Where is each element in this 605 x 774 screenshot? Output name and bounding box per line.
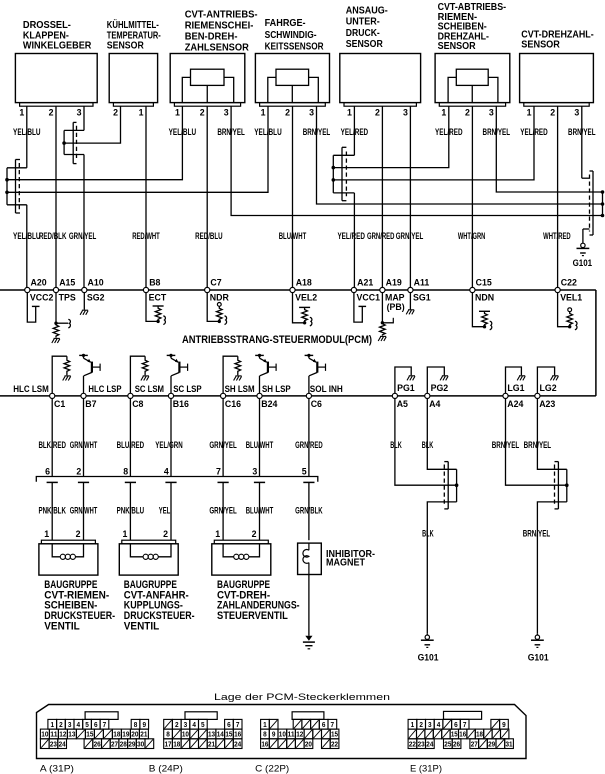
wire box1 pin2 to terminal A15 (RED/BLK) bbox=[55, 106, 57, 287]
wire from connector to valve (x=308.9) bbox=[308, 482, 310, 540]
svg-text:A5: A5 bbox=[397, 399, 408, 409]
svg-text:2: 2 bbox=[175, 720, 179, 729]
internal driver transistor at C6 (SOL INH) bbox=[305, 354, 314, 356]
valve CVT-RIEMENSCHEIBEN-DRUCKSTEUERVENTIL solenoid coil bbox=[52, 544, 60, 557]
svg-text:RIEMENSCHEI-: RIEMENSCHEI- bbox=[185, 21, 254, 32]
wire shield to terminal A20 bbox=[7, 204, 27, 206]
svg-text:B16: B16 bbox=[173, 399, 189, 409]
splice junction dot bbox=[455, 483, 459, 487]
svg-text:6: 6 bbox=[45, 467, 50, 477]
wire box5 pin1 into shield3 bbox=[353, 106, 355, 155]
svg-text:B8: B8 bbox=[149, 278, 160, 288]
internal NDR input: pull-up resistor with test point bbox=[207, 293, 219, 322]
splice top wire bbox=[427, 399, 456, 470]
connector A tab bbox=[85, 712, 118, 720]
svg-text:RED/BLU: RED/BLU bbox=[195, 231, 223, 241]
svg-text:7: 7 bbox=[103, 720, 107, 729]
connector C (22P) grid bbox=[261, 719, 270, 729]
svg-text:16: 16 bbox=[459, 730, 466, 739]
svg-text:5: 5 bbox=[85, 720, 89, 729]
svg-text:SENSOR: SENSOR bbox=[346, 39, 384, 50]
svg-text:1: 1 bbox=[19, 108, 24, 118]
svg-text:24: 24 bbox=[234, 739, 242, 748]
svg-text:A10: A10 bbox=[88, 278, 104, 288]
svg-text:VEL1: VEL1 bbox=[560, 292, 582, 302]
splice: cable symbol bbox=[557, 462, 559, 509]
svg-text:7: 7 bbox=[331, 720, 335, 729]
connector A (31P) grid bbox=[48, 719, 57, 729]
svg-text:GRN/BLK: GRN/BLK bbox=[295, 506, 323, 516]
wire shield3 to terminal A21 bbox=[333, 192, 354, 194]
wire to inline connector pin (x=171) bbox=[170, 399, 172, 477]
svg-text:ANTRIEBSSTRANG-STEUERMODUL(PCM: ANTRIEBSSTRANG-STEUERMODUL(PCM) bbox=[182, 334, 372, 346]
svg-text:1: 1 bbox=[215, 529, 220, 539]
svg-text:1: 1 bbox=[263, 720, 267, 729]
svg-text:RED/BLK: RED/BLK bbox=[39, 231, 67, 241]
svg-text:GRN/YEL: GRN/YEL bbox=[69, 231, 97, 241]
svg-text:9: 9 bbox=[142, 720, 146, 729]
svg-text:CVT-ANTRIEBS-: CVT-ANTRIEBS- bbox=[185, 9, 258, 20]
wire to inline connector pin (x=130.4) bbox=[129, 399, 131, 477]
svg-text:ECT: ECT bbox=[149, 292, 167, 302]
wire to inline connector pin (x=223.1) bbox=[222, 399, 224, 477]
sensor CVT-ABTRIEBSRIEMENSCHEIBEN-DREHZAHLSENSOR (driven pulley speed sensor) pin strip bbox=[439, 103, 505, 107]
svg-text:3: 3 bbox=[309, 108, 314, 118]
svg-text:VENTIL: VENTIL bbox=[44, 621, 80, 633]
svg-text:RED/WHT: RED/WHT bbox=[132, 231, 160, 241]
valve CVT-DREHZAHLAENDERUNGS-STEUERVENTIL solenoid coil bbox=[223, 544, 234, 557]
svg-text:18: 18 bbox=[173, 739, 180, 748]
sensor DROSSELKLAPPENWINKELGEBER (throttle angle sensor) box bbox=[15, 54, 97, 103]
wire box6 pin2 to terminal C15 (WHT/GRN) bbox=[471, 106, 473, 287]
svg-text:WHT/RED: WHT/RED bbox=[543, 231, 571, 241]
svg-text:29: 29 bbox=[488, 739, 495, 748]
svg-text:6: 6 bbox=[94, 720, 98, 729]
svg-text:C22: C22 bbox=[561, 278, 577, 288]
inline connector body bbox=[36, 477, 318, 482]
svg-text:16: 16 bbox=[261, 739, 268, 748]
shielded cable symbol (VCC2 wires) bbox=[15, 160, 17, 214]
internal SG1 ground bbox=[409, 293, 411, 310]
svg-text:PNK/BLU: PNK/BLU bbox=[117, 506, 144, 516]
svg-text:G101: G101 bbox=[528, 653, 549, 663]
svg-text:C7: C7 bbox=[210, 278, 221, 288]
svg-text:2: 2 bbox=[163, 529, 168, 539]
svg-text:3: 3 bbox=[252, 467, 257, 477]
sensor CVT-DREHZAHLSENSOR (CVT speed sensor) box bbox=[520, 54, 594, 103]
svg-text:7: 7 bbox=[216, 467, 221, 477]
svg-text:SH LSM: SH LSM bbox=[225, 384, 255, 394]
wire shield3 to box6 pin1 (YEL/RED) bbox=[333, 106, 449, 167]
svg-text:BLK: BLK bbox=[390, 440, 402, 450]
sensor DROSSELKLAPPENWINKELGEBER (throttle angle sensor) pin strip bbox=[20, 103, 93, 107]
wire shield4 to ground G101 bbox=[583, 228, 590, 230]
svg-text:4: 4 bbox=[164, 467, 169, 477]
svg-text:2: 2 bbox=[252, 529, 257, 539]
svg-text:GRN/YEL: GRN/YEL bbox=[209, 506, 237, 516]
shielded cable symbol (VCC1 wires) bbox=[341, 147, 343, 200]
svg-text:A4: A4 bbox=[429, 399, 440, 409]
svg-text:C (22P): C (22P) bbox=[255, 764, 289, 774]
svg-text:VCC1: VCC1 bbox=[357, 292, 381, 302]
svg-text:18: 18 bbox=[476, 730, 483, 739]
svg-text:7: 7 bbox=[236, 720, 240, 729]
wire box4 pin2 to terminal A18 (BLU/WHT) bbox=[292, 106, 294, 287]
svg-text:ZAHLSENSOR: ZAHLSENSOR bbox=[185, 43, 250, 54]
svg-text:3: 3 bbox=[574, 108, 579, 118]
svg-text:A20: A20 bbox=[31, 278, 47, 288]
svg-text:VCC2: VCC2 bbox=[30, 292, 54, 302]
wire to inline connector pin (x=83.5) bbox=[83, 399, 85, 477]
sensor FAHRGESCHWINDIGKEITSSENSOR (vehicle speed sensor) pickup coil bbox=[276, 69, 309, 85]
svg-text:3: 3 bbox=[68, 720, 72, 729]
wire shield2 to box2 pin2 bbox=[64, 106, 120, 143]
internal supply tap at VCC2 bbox=[27, 293, 35, 323]
internal driver transistor at B24 bbox=[255, 354, 264, 356]
splice exit wire to ground bbox=[537, 502, 566, 634]
svg-text:8: 8 bbox=[134, 720, 138, 729]
svg-text:SG1: SG1 bbox=[413, 292, 431, 302]
svg-text:C16: C16 bbox=[225, 399, 241, 409]
sensor CVT-ANTRIEBSRIEMENSCHEIBEN-DREHZAHLSENSOR (drive pulley speed sensor) pickup coil bbox=[191, 69, 225, 85]
wire box1 pin3 into shield2 bbox=[83, 106, 85, 130]
svg-text:8: 8 bbox=[123, 467, 128, 477]
svg-text:3: 3 bbox=[428, 720, 432, 729]
svg-text:2: 2 bbox=[76, 529, 81, 539]
svg-text:DRUCK-: DRUCK- bbox=[346, 28, 380, 39]
svg-text:9: 9 bbox=[502, 720, 506, 729]
PCM right border bbox=[595, 290, 597, 396]
svg-text:2: 2 bbox=[465, 108, 470, 118]
svg-text:8: 8 bbox=[263, 730, 267, 739]
svg-text:MAGNET: MAGNET bbox=[326, 558, 365, 569]
svg-text:19: 19 bbox=[122, 730, 129, 739]
svg-text:VEL2: VEL2 bbox=[295, 292, 317, 302]
svg-text:NDN: NDN bbox=[475, 292, 494, 302]
svg-text:BEN-DREH-: BEN-DREH- bbox=[185, 32, 238, 43]
connector B (24P) grid bbox=[164, 719, 173, 729]
svg-text:2: 2 bbox=[200, 108, 205, 118]
svg-text:STEUERVENTIL: STEUERVENTIL bbox=[217, 610, 288, 622]
svg-text:A (31P): A (31P) bbox=[40, 764, 74, 774]
ground G101 right bbox=[536, 634, 538, 635]
junction dots shield4 bbox=[601, 190, 605, 194]
wire box5 pin3 to terminal A11 (GRN/YEL) bbox=[409, 106, 411, 287]
wire box5 pin2 to terminal A19 (GRN/RED) bbox=[381, 106, 383, 287]
svg-text:B24: B24 bbox=[261, 399, 277, 409]
splice exit wire to ground bbox=[427, 502, 456, 634]
svg-text:2: 2 bbox=[113, 108, 118, 118]
svg-text:24: 24 bbox=[426, 739, 434, 748]
svg-text:9: 9 bbox=[272, 730, 276, 739]
valve CVT-RIEMENSCHEIBEN-DRUCKSTEUERVENTIL pin strip bbox=[41, 540, 95, 544]
svg-text:1: 1 bbox=[44, 529, 49, 539]
svg-text:15: 15 bbox=[451, 730, 458, 739]
svg-text:23: 23 bbox=[418, 739, 425, 748]
svg-text:3: 3 bbox=[184, 720, 188, 729]
svg-text:18: 18 bbox=[113, 730, 120, 739]
svg-text:BRN/YEL: BRN/YEL bbox=[523, 529, 551, 539]
wire from connector to valve (x=223.1) bbox=[222, 482, 224, 540]
svg-text:YEL/GRN: YEL/GRN bbox=[155, 440, 183, 450]
svg-text:5: 5 bbox=[302, 467, 307, 477]
wire shield3 to box7 pin1 (YEL/RED) bbox=[333, 106, 534, 180]
connector B tab bbox=[185, 712, 217, 720]
svg-text:26: 26 bbox=[453, 739, 460, 748]
svg-text:C15: C15 bbox=[476, 278, 492, 288]
internal driver transistor at B7 bbox=[79, 354, 88, 356]
internal supply tap at VCC1 bbox=[354, 293, 362, 323]
svg-text:13: 13 bbox=[68, 730, 75, 739]
wire shield1 to box4 pin1 (YEL/BLU) bbox=[7, 106, 268, 192]
svg-text:3: 3 bbox=[77, 108, 82, 118]
internal TPS input: resistor to ground with wiper hook bbox=[55, 293, 57, 324]
valve CVT-RIEMENSCHEIBEN-DRUCKSTEUERVENTIL box bbox=[39, 544, 98, 575]
svg-text:BLK: BLK bbox=[422, 529, 434, 539]
svg-text:E (31P): E (31P) bbox=[410, 764, 442, 774]
svg-text:1: 1 bbox=[411, 720, 415, 729]
internal VEL1 input: pull-up resistor with test point bbox=[558, 293, 570, 327]
connector C tab bbox=[292, 712, 324, 720]
wire to inline connector pin (x=259.5) bbox=[259, 399, 261, 477]
svg-text:SENSOR: SENSOR bbox=[438, 41, 477, 52]
connector E tab bbox=[444, 711, 482, 719]
svg-text:SG2: SG2 bbox=[87, 292, 105, 302]
sensor CVT-ANTRIEBSRIEMENSCHEIBEN-DREHZAHLSENSOR (drive pulley speed sensor) box bbox=[170, 54, 245, 103]
svg-text:5: 5 bbox=[201, 720, 205, 729]
wire inhibitor magnet to chassis ground bbox=[308, 575, 310, 636]
svg-text:2: 2 bbox=[375, 108, 380, 118]
svg-text:NDR: NDR bbox=[210, 292, 230, 302]
internal VEL2 input: pull-up resistor bbox=[293, 293, 305, 323]
svg-text:30: 30 bbox=[137, 739, 144, 748]
svg-text:21: 21 bbox=[140, 730, 147, 739]
svg-text:1: 1 bbox=[261, 108, 266, 118]
svg-text:G101: G101 bbox=[418, 653, 439, 663]
svg-text:UNTER-: UNTER- bbox=[346, 17, 380, 28]
svg-text:22: 22 bbox=[331, 739, 338, 748]
svg-text:27: 27 bbox=[471, 739, 478, 748]
svg-text:6: 6 bbox=[454, 720, 458, 729]
svg-text:SC LSP: SC LSP bbox=[173, 384, 202, 394]
sensor CVT-ABTRIEBSRIEMENSCHEIBEN-DREHZAHLSENSOR (driven pulley speed sensor) pickup coil bbox=[456, 69, 488, 85]
svg-text:PG2: PG2 bbox=[431, 383, 449, 393]
svg-text:23: 23 bbox=[50, 739, 57, 748]
svg-text:SENSOR: SENSOR bbox=[521, 40, 560, 51]
svg-text:C6: C6 bbox=[311, 399, 322, 409]
svg-text:8: 8 bbox=[166, 730, 170, 739]
svg-text:BLU/WHT: BLU/WHT bbox=[279, 231, 307, 241]
svg-text:2: 2 bbox=[49, 108, 54, 118]
valve CVT-ANFAHRKUPPLUNGS-DRUCKSTEUERVENTIL box bbox=[119, 544, 178, 575]
svg-text:Lage der PCM-Steckerklemmen: Lage der PCM-Steckerklemmen bbox=[214, 692, 390, 703]
svg-text:GRN/YEL: GRN/YEL bbox=[396, 231, 424, 241]
wire pin1 box1 to shield bbox=[26, 106, 28, 168]
svg-text:11: 11 bbox=[288, 730, 295, 739]
svg-text:6: 6 bbox=[322, 720, 326, 729]
svg-text:15: 15 bbox=[86, 730, 93, 739]
wire from connector to valve (x=130.4) bbox=[129, 482, 131, 540]
sensor KUEHLMITTELTEMPERATURSENSOR (coolant temp sensor) box bbox=[109, 54, 157, 103]
svg-text:1: 1 bbox=[175, 108, 180, 118]
svg-text:10: 10 bbox=[41, 730, 48, 739]
svg-text:3: 3 bbox=[403, 108, 408, 118]
internal low-side sense resistor at C16 bbox=[223, 356, 238, 393]
shielded cable symbol (shield drains, right) bbox=[592, 171, 594, 235]
svg-text:14: 14 bbox=[217, 730, 225, 739]
svg-text:15: 15 bbox=[225, 730, 232, 739]
sensor ANSAUG-UNTERDRUCKSENSOR (manifold absolute pressure sensor) box bbox=[340, 54, 421, 103]
svg-text:LG1: LG1 bbox=[507, 383, 524, 393]
internal logic ground LG2 bbox=[537, 367, 554, 393]
svg-text:HLC LSP: HLC LSP bbox=[88, 384, 121, 394]
svg-text:22: 22 bbox=[409, 739, 416, 748]
splice middle wire bbox=[506, 399, 567, 486]
splice junction dot bbox=[565, 483, 569, 487]
wire box2 pin1 to terminal B8 (RED/WHT) bbox=[145, 106, 147, 287]
valve CVT-DREHZAHLAENDERUNGS-STEUERVENTIL pin strip bbox=[214, 540, 268, 544]
sensor CVT-ABTRIEBSRIEMENSCHEIBEN-DREHZAHLSENSOR (driven pulley speed sensor) box bbox=[435, 54, 510, 103]
svg-text:1: 1 bbox=[527, 108, 532, 118]
svg-text:16: 16 bbox=[234, 730, 241, 739]
svg-text:10: 10 bbox=[279, 730, 286, 739]
svg-text:HLC LSM: HLC LSM bbox=[13, 384, 49, 394]
internal SG2 ground bbox=[83, 293, 85, 310]
internal power ground PG1 bbox=[395, 367, 411, 393]
svg-text:A23: A23 bbox=[539, 399, 555, 409]
valve CVT-DREHZAHLAENDERUNGS-STEUERVENTIL box bbox=[212, 544, 271, 575]
svg-text:B7: B7 bbox=[85, 399, 96, 409]
ground G101 at shield4 bbox=[582, 242, 584, 243]
splice: cable symbol bbox=[447, 462, 449, 509]
svg-text:10: 10 bbox=[182, 730, 189, 739]
internal MAP input: resistor to ground bbox=[381, 293, 383, 323]
svg-text:MAP: MAP bbox=[385, 292, 405, 302]
svg-text:GRN/WHT: GRN/WHT bbox=[70, 506, 98, 516]
svg-text:1: 1 bbox=[441, 108, 446, 118]
valve CVT-ANFAHRKUPPLUNGS-DRUCKSTEUERVENTIL pin strip bbox=[122, 540, 176, 544]
svg-text:B (24P): B (24P) bbox=[149, 764, 183, 774]
svg-text:3: 3 bbox=[489, 108, 494, 118]
sensor FAHRGESCHWINDIGKEITSSENSOR (vehicle speed sensor) pin strip bbox=[260, 103, 326, 107]
junction dots on shield1 bracket bbox=[5, 178, 9, 182]
wire to inline connector pin (x=52.2) bbox=[51, 399, 53, 477]
sensor FAHRGESCHWINDIGKEITSSENSOR (vehicle speed sensor) box bbox=[255, 54, 329, 103]
svg-text:26: 26 bbox=[94, 739, 101, 748]
svg-text:WHT/GRN: WHT/GRN bbox=[458, 231, 486, 241]
svg-text:7: 7 bbox=[463, 720, 467, 729]
svg-text:28: 28 bbox=[120, 739, 127, 748]
svg-text:SC LSM: SC LSM bbox=[135, 384, 164, 394]
svg-text:KÜHLMITTEL-: KÜHLMITTEL- bbox=[107, 18, 159, 31]
wire box6 pin3 drain (BRN/YEL) bbox=[496, 106, 602, 192]
svg-text:12: 12 bbox=[296, 730, 303, 739]
svg-text:PNK/BLK: PNK/BLK bbox=[38, 506, 66, 516]
svg-text:LG2: LG2 bbox=[540, 383, 557, 393]
svg-text:A11: A11 bbox=[414, 278, 430, 288]
svg-text:1: 1 bbox=[139, 108, 144, 118]
svg-text:2: 2 bbox=[419, 720, 423, 729]
sensor CVT-DREHZAHLSENSOR (CVT speed sensor) pin strip bbox=[524, 103, 589, 107]
wire from connector to valve (x=259.5) bbox=[259, 482, 261, 540]
svg-text:2: 2 bbox=[550, 108, 555, 118]
svg-text:WINKELGEBER: WINKELGEBER bbox=[23, 40, 92, 51]
PCM bottom bus line bbox=[0, 395, 596, 397]
svg-text:24: 24 bbox=[59, 739, 67, 748]
wire shield1 to box3 pin1 (YEL/BLU) bbox=[7, 106, 182, 180]
svg-text:21: 21 bbox=[208, 739, 215, 748]
internal low-side sense resistor at C8 bbox=[130, 356, 145, 393]
svg-text:A21: A21 bbox=[357, 278, 373, 288]
svg-text:A18: A18 bbox=[296, 278, 312, 288]
internal ECT input: pull-up resistor bbox=[146, 293, 158, 322]
svg-text:YEL: YEL bbox=[159, 506, 171, 516]
svg-text:C1: C1 bbox=[54, 399, 65, 409]
wire shield2 to terminal A10 bbox=[64, 154, 84, 156]
inhibitor magnet coil bbox=[308, 543, 310, 550]
svg-text:SH LSP: SH LSP bbox=[262, 384, 291, 394]
svg-text:FAHRGE-: FAHRGE- bbox=[265, 18, 306, 29]
internal driver transistor at B16 bbox=[167, 354, 176, 356]
svg-text:29: 29 bbox=[128, 739, 135, 748]
svg-text:2: 2 bbox=[59, 720, 63, 729]
internal NDN input: pull-up resistor bbox=[472, 293, 484, 327]
sensor KUEHLMITTELTEMPERATURSENSOR (coolant temp sensor) pin strip bbox=[113, 103, 153, 107]
svg-text:2: 2 bbox=[285, 108, 290, 118]
wire to inline connector pin (x=308.9) bbox=[308, 399, 310, 477]
svg-text:17: 17 bbox=[165, 739, 172, 748]
svg-text:15: 15 bbox=[331, 730, 338, 739]
svg-text:(PB): (PB) bbox=[387, 302, 405, 312]
wire box4 pin3 drain (BRN/YEL) bbox=[317, 106, 603, 204]
svg-text:C8: C8 bbox=[132, 399, 143, 409]
ground G101 left bbox=[426, 634, 428, 635]
svg-text:GRN/RED: GRN/RED bbox=[367, 231, 395, 241]
junction dot shield2 bbox=[62, 141, 66, 145]
valve CVT-ANFAHRKUPPLUNGS-DRUCKSTEUERVENTIL solenoid coil bbox=[130, 544, 143, 557]
svg-text:YEL/BLU: YEL/BLU bbox=[13, 231, 41, 241]
svg-text:2: 2 bbox=[76, 467, 81, 477]
svg-text:6: 6 bbox=[227, 720, 231, 729]
connector E (31P) grid bbox=[408, 719, 417, 729]
svg-text:11: 11 bbox=[50, 730, 57, 739]
svg-text:G101: G101 bbox=[573, 258, 593, 268]
svg-text:12: 12 bbox=[59, 730, 66, 739]
svg-text:20: 20 bbox=[131, 730, 138, 739]
wire from connector to valve (x=171) bbox=[170, 482, 172, 540]
svg-text:A15: A15 bbox=[59, 278, 75, 288]
svg-text:A24: A24 bbox=[507, 399, 523, 409]
wire box3 pin2 to terminal C7 (RED/BLU) bbox=[206, 106, 208, 287]
svg-text:25: 25 bbox=[444, 739, 451, 748]
splice top wire bbox=[537, 399, 566, 470]
shielded cable symbol (SG2 wires) bbox=[72, 122, 74, 163]
splice middle wire bbox=[395, 399, 457, 486]
svg-text:A19: A19 bbox=[386, 278, 402, 288]
wire box7 pin3 into shield4 bbox=[581, 106, 583, 178]
internal power ground PG2 bbox=[427, 367, 444, 393]
svg-text:VENTIL: VENTIL bbox=[124, 621, 160, 633]
svg-text:1: 1 bbox=[122, 529, 127, 539]
wire box3 pin3 drain (BRN/YEL) bbox=[231, 106, 602, 215]
inhibitor magnet box bbox=[298, 543, 322, 574]
svg-text:SENSOR: SENSOR bbox=[107, 40, 145, 51]
connector layout enclosure bbox=[37, 705, 527, 759]
PCM top bus line bbox=[0, 289, 596, 291]
svg-text:3: 3 bbox=[224, 108, 229, 118]
wire box7 pin2 to terminal C22 (WHT/RED) bbox=[557, 106, 559, 287]
internal logic ground LG1 bbox=[506, 367, 522, 393]
